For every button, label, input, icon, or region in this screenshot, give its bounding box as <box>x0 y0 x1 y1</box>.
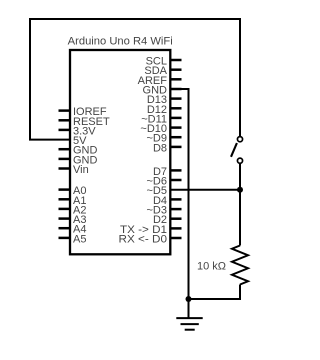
pin ~D3 <box>147 205 182 217</box>
pin ~D10 <box>140 123 181 135</box>
pin GND left 1 <box>59 145 98 157</box>
wire 5V to switch top <box>30 19 240 140</box>
pin 3.3V <box>59 125 97 137</box>
switch S1 terminal circle top <box>237 137 242 142</box>
pin A1 <box>59 195 87 207</box>
svg-text:Vin: Vin <box>73 164 89 176</box>
pin ~D6 <box>147 176 182 188</box>
pin A4 <box>59 224 87 236</box>
ground <box>176 299 202 330</box>
switch S1 blade <box>231 143 237 157</box>
pin D8 <box>153 142 182 154</box>
pin AREF <box>138 75 182 87</box>
wire node A to resistor R1 <box>239 190 241 246</box>
pin GND right <box>143 85 182 97</box>
svg-text:10 kΩ: 10 kΩ <box>197 261 226 273</box>
pin Vin <box>59 164 89 176</box>
wire switch bottom to node A <box>239 163 241 189</box>
pin IOREF <box>59 106 107 118</box>
pin D12 <box>147 104 182 116</box>
wire D5 pin to node A <box>170 189 240 191</box>
pin D2 <box>153 214 182 226</box>
resistor R1 <box>232 246 248 285</box>
svg-text:A5: A5 <box>73 233 86 245</box>
pin ~D5 <box>147 185 168 197</box>
pin GND left 2 <box>59 154 98 166</box>
pin ~D9 <box>147 133 182 145</box>
pin RX <- D0 <box>119 234 182 246</box>
junction node A <box>237 187 243 193</box>
svg-text:Arduino Uno R4 WiFi: Arduino Uno R4 WiFi <box>68 36 173 48</box>
junction node B <box>186 296 192 302</box>
pin D13 <box>147 94 182 106</box>
pin A3 <box>59 214 87 226</box>
pin D4 <box>153 195 182 207</box>
wire GND pin to node B <box>170 89 189 299</box>
pin RESET <box>59 116 110 128</box>
pin A2 <box>59 204 87 216</box>
svg-text:RX <- D0: RX <- D0 <box>119 234 168 246</box>
switch S1 terminal circle bottom <box>237 158 242 163</box>
pin 5V <box>73 135 87 147</box>
pin A5 <box>59 233 87 245</box>
svg-text:D8: D8 <box>153 142 167 154</box>
IC U1 Arduino Uno R4 WiFi body <box>70 50 170 254</box>
wire resistor R1 to node B <box>189 285 241 300</box>
pin A0 <box>59 185 87 197</box>
pin SCL <box>146 56 182 68</box>
pin D7 <box>153 166 182 178</box>
pin ~D11 <box>141 113 181 125</box>
pin TX -> D1 <box>120 224 182 236</box>
pin SDA <box>144 65 181 77</box>
